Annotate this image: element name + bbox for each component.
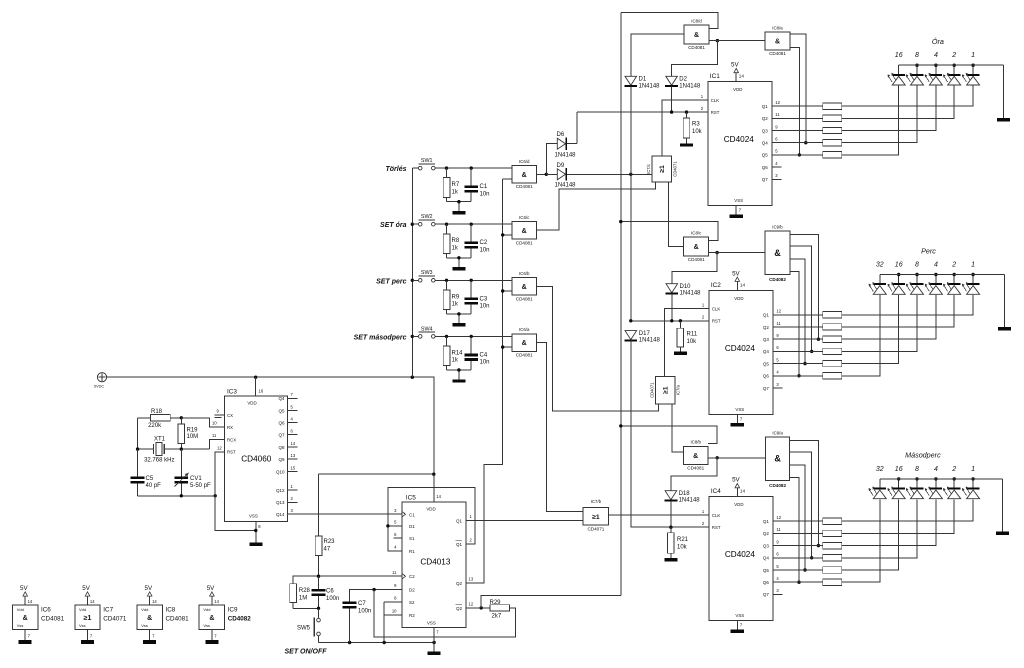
switch SW3	[412, 270, 435, 282]
label LED weight 4	[934, 262, 938, 269]
svg-text:CD4081: CD4081	[516, 184, 533, 189]
svg-text:16: 16	[895, 466, 903, 473]
power 5V at IC8	[145, 585, 158, 605]
wire IC1 Q3 to series resistor	[772, 130, 823, 132]
wire IC7/c output to IC1 CLK	[662, 100, 708, 156]
gate IC9/a (CD4082)	[766, 430, 790, 487]
svg-text:≥1: ≥1	[663, 386, 670, 394]
svg-text:SW5: SW5	[297, 625, 311, 631]
svg-text:14: 14	[740, 282, 746, 287]
label LED weight 16	[895, 52, 903, 59]
wire 5V branch to R23	[319, 473, 434, 475]
IC IC3 CD4060 oscillator/divider	[224, 388, 296, 521]
wire enable bus (Q2 run signal)	[620, 12, 622, 595]
svg-text:CD4082: CD4082	[769, 277, 786, 282]
LED Másodperc bit 32	[869, 479, 887, 499]
svg-text:CD4082: CD4082	[228, 616, 252, 623]
label Törlés	[385, 166, 406, 173]
svg-text:Q6: Q6	[763, 374, 770, 379]
svg-text:D9: D9	[557, 163, 565, 169]
gate IC8/d (CD4081)	[684, 18, 709, 50]
pin stub IC2 Q7	[773, 387, 783, 389]
power 5V at IC4 VDD	[732, 477, 745, 497]
LED Óra bit 4	[925, 65, 943, 85]
svg-text:RST: RST	[712, 319, 721, 324]
svg-text:Q4: Q4	[763, 349, 770, 354]
wire Q1-bar to D1 feedback loop and R1	[388, 488, 475, 551]
resistor LED series (Q3)	[823, 542, 842, 548]
wire Q2-bar to R29	[466, 607, 490, 609]
svg-text:≥1: ≥1	[592, 514, 600, 521]
junction IC9/a sense	[803, 568, 806, 571]
svg-text:SET ON/OFF: SET ON/OFF	[285, 648, 328, 655]
wire IC5 VDD pin 14	[433, 474, 435, 502]
svg-text:Vss: Vss	[17, 623, 24, 628]
svg-text:D1: D1	[639, 77, 647, 83]
label LED weight 2	[951, 262, 956, 269]
wire IC6 Vss pin 7	[25, 630, 30, 640]
svg-text:SW1: SW1	[421, 158, 433, 164]
svg-text:11: 11	[212, 433, 217, 438]
junction LED bus	[971, 63, 974, 66]
wire Q14 pin 3 to IC5 C1 clock	[288, 513, 402, 515]
wire D18 to IC4 RST	[670, 501, 672, 527]
svg-text:IC4: IC4	[711, 488, 721, 495]
svg-text:SET másodperc: SET másodperc	[354, 334, 407, 341]
svg-text:14: 14	[739, 74, 745, 79]
capacitor CV1 5-50 pF trimmer	[174, 449, 211, 496]
svg-text:Q1: Q1	[763, 519, 770, 524]
label LED weight 4	[934, 466, 938, 473]
resistor LED series (Q5)	[823, 567, 842, 573]
wire IC6/b output to IC7/a input	[537, 286, 659, 411]
svg-text:IC7: IC7	[103, 607, 113, 614]
junction reset bus / D17	[629, 319, 632, 322]
svg-text:IC9/b: IC9/b	[772, 225, 783, 230]
wire LED bus to ground	[1002, 479, 1004, 532]
wire hours-24 to D2	[672, 41, 718, 77]
junction C7 ground	[348, 641, 351, 644]
svg-text:SW3: SW3	[421, 270, 433, 276]
svg-text:D17: D17	[639, 331, 651, 337]
junction 5V rail / R23 branch / IC5 VDD	[432, 473, 435, 476]
gate IC8/c (CD4081)	[684, 231, 709, 263]
wire resistor to LED 2	[842, 499, 954, 533]
junction caps row / RST branch	[214, 494, 217, 497]
svg-text:Q3: Q3	[763, 543, 770, 548]
gate IC6/b (CD4081)	[512, 271, 537, 301]
ground at R7/C1	[452, 211, 465, 214]
capacitor C7 100n	[343, 590, 402, 643]
wire resistor to LED 1	[842, 499, 973, 521]
svg-text:5-50 pF: 5-50 pF	[190, 483, 211, 489]
wire LED cathode bus	[880, 478, 1003, 480]
svg-text:IC8/c: IC8/c	[691, 231, 702, 236]
wire R14/C4 bottom	[447, 370, 472, 379]
pin stub S1 pin 6	[394, 537, 403, 539]
resistor LED series (Q5)	[823, 152, 842, 158]
junction LED bus	[971, 477, 974, 480]
resistor R18 220k	[138, 409, 182, 429]
wire 5V rail from 5VDC to IC5 VDD	[107, 377, 434, 502]
svg-text:XT1: XT1	[154, 437, 166, 443]
svg-text:R3: R3	[692, 121, 700, 127]
svg-text:11: 11	[392, 570, 397, 575]
resistor R28 1M	[290, 584, 311, 609]
junction crystal left / C5	[136, 447, 139, 450]
svg-text:16: 16	[895, 262, 903, 269]
wire IC1 Q5 to series resistor	[772, 154, 823, 156]
spare gate power block IC8 CD4081	[137, 605, 189, 630]
wire IC3 VSS pin 8	[256, 521, 261, 542]
ground at Óra LED bus	[997, 118, 1010, 122]
wire enable bus tail to Q2-bar	[481, 596, 621, 608]
svg-text:VDD: VDD	[734, 502, 743, 507]
svg-text:Vdd: Vdd	[141, 607, 148, 612]
svg-text:Q2: Q2	[763, 325, 770, 330]
svg-text:4: 4	[934, 262, 938, 269]
svg-text:C4: C4	[480, 352, 488, 358]
wire capacitors bottom row	[138, 495, 216, 497]
svg-text:5V: 5V	[732, 477, 740, 484]
svg-text:&: &	[522, 340, 527, 347]
label LED weight 1	[971, 262, 975, 269]
svg-text:100n: 100n	[358, 609, 371, 615]
wire IC7 Vss pin 7	[88, 630, 93, 640]
ground at IC8	[143, 640, 156, 644]
pin stub IC1 Q6	[772, 166, 782, 168]
resistor R7 1k	[443, 168, 460, 202]
junction R23/C6 on C2 node	[317, 575, 320, 578]
svg-text:VDD: VDD	[247, 401, 256, 406]
ground at R14/C4	[452, 379, 465, 382]
svg-text:12: 12	[776, 515, 781, 520]
label SET ON/OFF	[285, 648, 328, 655]
svg-text:≥1: ≥1	[84, 615, 92, 622]
svg-text:RST: RST	[711, 110, 720, 115]
resistor LED series (Q1)	[823, 518, 842, 524]
resistor LED series (Q6)	[823, 373, 842, 379]
svg-text:40 pF: 40 pF	[146, 483, 162, 489]
capacitor C6 100n	[312, 576, 340, 608]
svg-text:1k: 1k	[452, 358, 459, 364]
label LED weight 8	[915, 466, 919, 473]
svg-text:Q1: Q1	[762, 104, 769, 109]
svg-text:1: 1	[971, 52, 975, 59]
LED Perc bit 1	[962, 275, 980, 295]
wire IC8/d output to D1	[631, 34, 684, 76]
svg-text:Q12: Q12	[276, 488, 285, 493]
wire resistor to LED 1	[842, 86, 973, 106]
svg-text:8: 8	[915, 466, 919, 473]
wire IC9/b output to IC8/c	[709, 252, 765, 254]
svg-text:VSS: VSS	[734, 198, 743, 203]
resistor LED series (Q2)	[823, 530, 842, 536]
svg-text:D10: D10	[680, 284, 692, 290]
wire IC1 RST row	[577, 111, 708, 113]
wire enable bus wrap into IC8/d	[621, 12, 718, 28]
svg-text:CD4013: CD4013	[420, 558, 450, 567]
label LED weight 16	[895, 466, 903, 473]
svg-text:S2: S2	[409, 600, 415, 605]
wire VSS pin 7 of IC1	[736, 206, 742, 215]
svg-text:CD4071: CD4071	[672, 161, 677, 177]
wire IC6/a lower input from enable bus	[503, 346, 512, 348]
junction R7 top	[445, 166, 448, 169]
wire crystal node to RCX pin 11	[210, 433, 225, 449]
wire IC9/a output to IC8/b	[708, 457, 766, 459]
svg-text:8: 8	[915, 52, 919, 59]
svg-text:Másodperc: Másodperc	[905, 451, 941, 460]
svg-text:CD4081: CD4081	[688, 45, 705, 50]
junction LED bus	[915, 273, 918, 276]
svg-text:13: 13	[291, 453, 296, 458]
wire IC3 RST pin 12 to VSS net	[215, 445, 256, 530]
LED Óra bit 2	[943, 65, 961, 85]
label LED weight 8	[915, 52, 919, 59]
wire IC6/b lower input from enable bus	[503, 290, 512, 292]
svg-text:Q13: Q13	[276, 500, 285, 505]
junction D1 on feedback loop	[386, 524, 389, 527]
svg-text:14: 14	[28, 599, 33, 604]
junction C3 top	[470, 279, 473, 282]
svg-text:1k: 1k	[452, 246, 459, 252]
gate IC7/a (CD4071)	[649, 377, 680, 404]
wire D10 to IC2 RST	[671, 294, 673, 321]
svg-text:Q2: Q2	[762, 116, 769, 121]
pin stub CX pin 9 of IC3	[215, 409, 225, 418]
wire VSS pin 7 of IC2	[737, 414, 743, 423]
label Óra	[932, 37, 944, 46]
svg-text:12: 12	[776, 309, 781, 314]
junction LED bus	[915, 477, 918, 480]
label LED weight 4	[934, 52, 938, 59]
wire resistor to LED 8	[842, 86, 917, 143]
wire LED cathode bus	[880, 274, 1005, 276]
ground at IC1 VSS	[729, 215, 743, 218]
svg-text:Q5: Q5	[763, 361, 770, 366]
wire IC4 Q4 to series resistor	[773, 557, 823, 559]
wire IC1 Q4 to series resistor	[772, 142, 823, 144]
wire IC9/a input from IC4 Q3	[790, 440, 819, 545]
power 5V at IC2 VDD	[732, 270, 745, 290]
svg-text:S1: S1	[409, 536, 415, 541]
wire IC2 Q5 to series resistor	[773, 363, 823, 365]
svg-text:Q3: Q3	[762, 128, 769, 133]
wire IC4 Q3 to series resistor	[773, 545, 823, 547]
LED Másodperc bit 1	[962, 479, 980, 499]
LED Perc bit 32	[869, 275, 887, 295]
junction C2 top	[470, 223, 473, 226]
junction R9/C3 ground node	[457, 312, 460, 315]
wire IC5 VSS pin 7	[433, 628, 435, 652]
svg-text:SW4: SW4	[421, 326, 433, 332]
switch SW2	[412, 214, 435, 226]
svg-text:IC5: IC5	[406, 494, 416, 501]
junction VSS ground	[432, 641, 435, 644]
capacitor C2 10n	[464, 224, 489, 258]
wire IC4 Q6 to series resistor	[773, 581, 823, 583]
svg-text:8: 8	[915, 262, 919, 269]
LED Perc bit 2	[943, 275, 961, 295]
wire resistor to LED 16	[842, 499, 899, 570]
svg-text:&: &	[774, 454, 781, 464]
svg-text:IC7/c: IC7/c	[646, 164, 651, 174]
svg-text:14: 14	[291, 441, 296, 446]
wire R8/C2 bottom	[447, 258, 472, 267]
svg-text:R19: R19	[187, 427, 199, 433]
svg-text:1M: 1M	[299, 596, 307, 602]
label LED weight 16	[895, 262, 903, 269]
wire IC7/b output to IC4 CLK	[609, 514, 709, 516]
svg-text:IC8/a: IC8/a	[772, 25, 783, 30]
label LED weight 2	[951, 466, 956, 473]
wire IC7/a input from IC8/b	[672, 404, 683, 452]
capacitor C4 10n	[464, 336, 489, 370]
svg-text:IC7/b: IC7/b	[591, 499, 602, 504]
svg-text:Q1: Q1	[763, 313, 770, 318]
junction IC9/b sense	[803, 362, 806, 365]
LED Másodperc bit 2	[943, 479, 961, 499]
wire IC2 Q3 to series resistor	[773, 338, 823, 340]
svg-text:Q8: Q8	[278, 445, 285, 450]
svg-text:Törlés: Törlés	[385, 166, 406, 173]
svg-text:Q6: Q6	[278, 420, 285, 425]
junction R14 top	[445, 335, 448, 338]
junction C6 bottom / SW5	[317, 607, 320, 610]
ground at R3	[680, 143, 693, 146]
svg-text:D1: D1	[409, 524, 415, 529]
svg-text:CD4081: CD4081	[687, 466, 704, 471]
wire IC9/a input from IC4 Q5	[790, 465, 805, 570]
svg-text:10k: 10k	[687, 339, 698, 345]
svg-text:12: 12	[217, 445, 222, 450]
junction LED bus	[897, 477, 900, 480]
junction R14/C4 ground node	[457, 368, 460, 371]
wire resistor to LED 4	[842, 499, 936, 545]
svg-text:VSS: VSS	[735, 613, 744, 618]
svg-text:R23: R23	[324, 539, 336, 545]
LED Óra bit 16	[888, 65, 906, 85]
junction LED bus	[897, 273, 900, 276]
resistor R11 10k	[677, 321, 698, 352]
power 5V at IC7	[82, 585, 95, 605]
junction 5V rail to IC3 VDD	[254, 376, 257, 379]
svg-text:CV1: CV1	[190, 476, 202, 482]
wire IC8 Vss pin 7	[150, 630, 155, 640]
gate IC8/b (CD4081)	[683, 440, 708, 471]
wire IC4 Q2 to series resistor	[773, 532, 823, 534]
svg-text:47: 47	[324, 547, 331, 553]
svg-text:&: &	[23, 615, 28, 622]
svg-text:Q5: Q5	[278, 408, 285, 413]
junction D2 on RST	[670, 110, 673, 113]
svg-text:10M: 10M	[187, 434, 199, 440]
svg-text:Q7: Q7	[763, 592, 770, 597]
resistor LED series (Q4)	[823, 348, 842, 354]
junction LED bus	[934, 273, 937, 276]
junction IC9/a sense	[817, 544, 820, 547]
svg-text:1N4148: 1N4148	[639, 338, 661, 344]
wire resistor to LED 2	[842, 86, 954, 119]
resistor R8 1k	[443, 224, 460, 258]
svg-text:VSS: VSS	[427, 621, 436, 626]
svg-text:32.768 kHz: 32.768 kHz	[144, 458, 174, 464]
svg-text:IC8/b: IC8/b	[690, 440, 701, 445]
svg-text:Vdd: Vdd	[17, 607, 24, 612]
wire IC9/b input from IC2 Q5	[790, 259, 805, 363]
junction Q4 sense	[804, 141, 807, 144]
wire IC2 RST row	[631, 320, 709, 322]
wire resistor to LED 4	[842, 86, 936, 131]
wire D2 to IC1 RST	[671, 86, 673, 112]
svg-text:&: &	[694, 32, 699, 39]
svg-text:&: &	[522, 172, 527, 179]
svg-text:11: 11	[776, 321, 781, 326]
svg-text:5V: 5V	[731, 62, 739, 69]
svg-text:RCX: RCX	[227, 438, 236, 443]
svg-text:16: 16	[259, 389, 264, 394]
svg-text:C2: C2	[480, 240, 488, 246]
svg-text:Q6: Q6	[762, 165, 769, 170]
svg-text:4: 4	[934, 52, 938, 59]
junction R8/C2 ground node	[457, 256, 460, 259]
svg-text:IC8/d: IC8/d	[691, 18, 702, 23]
junction enable bus at IC6/c	[501, 233, 504, 236]
ground at Másodperc LED bus	[996, 532, 1009, 536]
wire IC8/a input from IC1 Q5	[790, 48, 800, 155]
svg-text:R2: R2	[409, 613, 415, 618]
junction D6/D9 anode node	[545, 173, 548, 176]
wire IC3 VDD pin 16	[256, 377, 264, 396]
svg-text:1N4148: 1N4148	[680, 291, 702, 297]
svg-text:C7: C7	[358, 601, 366, 607]
resistor R9 1k	[443, 280, 460, 314]
wire IC9 Vss pin 7	[212, 630, 217, 640]
junction crystal right / R19 / CV1	[180, 447, 183, 450]
svg-text:R21: R21	[677, 537, 689, 543]
wire resistor to LED 8	[842, 295, 917, 351]
resistor LED series (Q3)	[823, 336, 842, 342]
ground at IC5 VSS	[428, 652, 441, 655]
label LED weight 32	[876, 262, 884, 269]
svg-text:5V: 5V	[207, 585, 215, 592]
svg-text:CD4024: CD4024	[725, 344, 755, 353]
svg-text:CD4081: CD4081	[688, 257, 705, 262]
svg-text:Q4: Q4	[763, 556, 770, 561]
svg-text:1N4148: 1N4148	[679, 498, 701, 504]
wire SW1 row to gate input	[435, 167, 512, 169]
label Másodperc	[905, 451, 941, 460]
junction IC9/a sense	[810, 556, 813, 559]
svg-text:5V: 5V	[20, 585, 28, 592]
resistor LED series (Q5)	[823, 360, 842, 366]
svg-text:14: 14	[214, 599, 219, 604]
svg-text:1: 1	[971, 466, 975, 473]
wire IC8/c output to IC7/c input	[669, 182, 684, 247]
wire IC2 Q2 to series resistor	[773, 326, 823, 328]
wire resistor to LED 2	[842, 295, 954, 327]
LED Másodperc bit 4	[925, 479, 943, 499]
wire R9/C3 bottom	[447, 314, 472, 323]
svg-text:1N4148: 1N4148	[555, 182, 577, 188]
wire SW2 row to gate input	[435, 223, 512, 225]
junction enable bus tap (minutes)	[619, 220, 622, 223]
switch SW1	[412, 158, 435, 170]
svg-text:R8: R8	[452, 238, 460, 244]
gate IC7/c (CD4071)	[646, 156, 677, 182]
wire D17 to IC4 RST	[631, 341, 709, 528]
